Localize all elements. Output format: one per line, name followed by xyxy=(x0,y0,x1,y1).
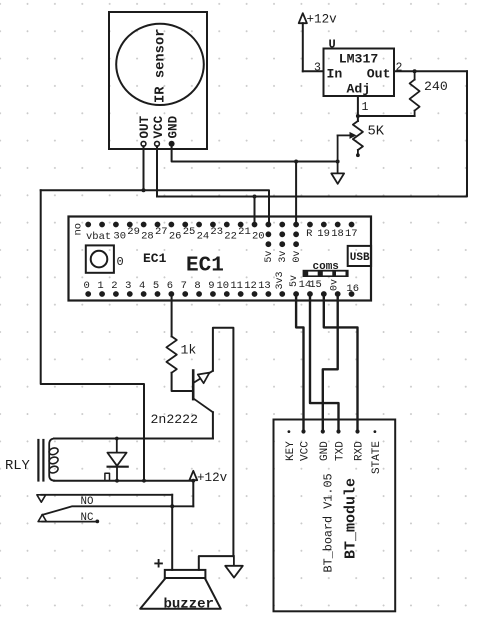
pin number 2 (Out) xyxy=(396,62,403,75)
EC1 board outline xyxy=(69,217,372,301)
potentiometer 5K xyxy=(353,121,363,157)
svg-text:1k: 1k xyxy=(181,343,197,358)
pin number 1 (Adj) xyxy=(362,101,369,114)
pin labels 0..13 (bottom) xyxy=(84,280,271,292)
pin label no xyxy=(73,223,85,236)
wire LM317 Out to right rail xyxy=(394,70,467,72)
EC1 big label xyxy=(186,255,224,278)
contact arrow NO xyxy=(37,495,46,502)
pin label R xyxy=(306,228,313,240)
relay RLY label xyxy=(5,459,31,474)
svg-text:EC1: EC1 xyxy=(143,251,167,266)
svg-text:4: 4 xyxy=(139,280,145,292)
coms label xyxy=(313,261,339,273)
ground (buzzer/emitter) xyxy=(225,556,243,578)
transistor Q1 2n2222 xyxy=(193,371,213,413)
EC1 small label xyxy=(143,251,167,266)
pin label 0v (bottom) xyxy=(330,279,341,291)
relay coil xyxy=(48,439,59,481)
svg-text:GND: GND xyxy=(319,441,331,461)
svg-text:10: 10 xyxy=(216,280,229,292)
svg-text:IR sensor: IR sensor xyxy=(154,28,169,103)
junction buzzer feed xyxy=(170,504,174,508)
svg-text:no: no xyxy=(73,223,85,236)
wire relay top rail xyxy=(54,438,213,440)
junction Adj node xyxy=(356,114,360,118)
svg-text:9: 9 xyxy=(208,280,214,292)
svg-text:16: 16 xyxy=(346,283,359,295)
junction diode top xyxy=(115,437,119,441)
wire VCC net to LM317 Out xyxy=(157,71,467,196)
svg-text:GND: GND xyxy=(166,115,180,138)
svg-text:5K: 5K xyxy=(368,125,385,140)
svg-text:1: 1 xyxy=(362,101,369,114)
buzzer body xyxy=(140,570,221,609)
regulator U LM317 xyxy=(324,38,395,97)
svg-text:VCC: VCC xyxy=(300,441,312,461)
svg-text:0: 0 xyxy=(84,280,90,292)
svg-text:0v: 0v xyxy=(292,251,303,263)
wire +12v to LM317 In xyxy=(303,70,324,72)
wire EC1 14 to BT TXD xyxy=(310,294,339,432)
IR sensor pin OUT xyxy=(138,115,152,146)
wire buzzer negative xyxy=(199,556,234,570)
svg-text:29: 29 xyxy=(127,226,140,238)
svg-text:STATE: STATE xyxy=(371,441,383,474)
diode D1 flyback xyxy=(107,439,127,481)
svg-text:RLY: RLY xyxy=(5,459,31,474)
potentiometer wiper arrow xyxy=(338,132,357,174)
coms connector xyxy=(303,270,349,277)
IR sensor pin VCC xyxy=(152,115,166,146)
svg-text:KEY: KEY xyxy=(285,441,297,461)
wire OUT net left loop down to relay rail xyxy=(41,190,144,480)
svg-text:17: 17 xyxy=(345,228,358,240)
junction diode bottom xyxy=(115,479,119,483)
svg-text:U: U xyxy=(329,38,336,52)
svg-text:6: 6 xyxy=(167,280,173,292)
svg-text:12: 12 xyxy=(244,280,257,292)
contact arrow NC xyxy=(38,515,46,522)
svg-text:EC1: EC1 xyxy=(186,255,224,278)
svg-text:3v: 3v xyxy=(278,251,289,263)
svg-text:Adj: Adj xyxy=(347,82,371,97)
pin label 16 xyxy=(346,283,359,295)
svg-text:TXD: TXD xyxy=(335,441,347,461)
switch lever xyxy=(42,506,193,515)
value label 5K xyxy=(368,125,385,140)
value label 1k xyxy=(181,343,197,358)
svg-text:2: 2 xyxy=(396,62,403,75)
ground (pot wiper) xyxy=(331,173,344,183)
svg-text:18: 18 xyxy=(331,228,344,240)
svg-text:3: 3 xyxy=(125,280,131,292)
svg-text:15: 15 xyxy=(309,279,322,291)
svg-text:Out: Out xyxy=(367,67,391,82)
wire NO line xyxy=(41,494,172,496)
svg-text:RXD: RXD xyxy=(354,441,366,461)
wire EC1 15 to BT RXD xyxy=(324,294,358,432)
pin label vbat xyxy=(86,231,111,243)
wire Adj down xyxy=(357,96,359,121)
wire EC1 0v to BT GND xyxy=(323,294,338,432)
USB connector xyxy=(348,246,371,266)
svg-text:24: 24 xyxy=(197,231,210,243)
junction +12v rail xyxy=(191,479,195,483)
EC1 top pin header row xyxy=(85,222,354,228)
svg-text:LM317: LM317 xyxy=(339,52,379,67)
svg-text:NC: NC xyxy=(81,512,94,524)
EC1 power pin block 5v/3v/0v xyxy=(265,231,299,247)
svg-text:28: 28 xyxy=(141,231,154,243)
value label 240 xyxy=(424,79,448,94)
BT pin GND xyxy=(319,429,331,461)
svg-text:26: 26 xyxy=(169,231,182,243)
svg-text:23: 23 xyxy=(210,226,223,238)
resistor 240 xyxy=(410,71,420,116)
svg-text:7: 7 xyxy=(181,280,187,292)
relay core bars xyxy=(38,440,43,481)
power +12v supply (top) xyxy=(299,13,337,72)
svg-text:30: 30 xyxy=(113,231,126,243)
svg-text:vbat: vbat xyxy=(86,231,111,243)
svg-text:27: 27 xyxy=(155,226,168,238)
BT pin RXD xyxy=(354,429,366,461)
svg-text:25: 25 xyxy=(183,226,196,238)
svg-text:20: 20 xyxy=(252,231,265,243)
svg-text:19: 19 xyxy=(317,228,330,240)
button label 0 xyxy=(117,255,124,269)
pin number 3 (In) xyxy=(314,62,321,75)
svg-text:2n2222: 2n2222 xyxy=(151,412,198,427)
svg-text:+12v: +12v xyxy=(307,13,338,27)
junction GND/0v xyxy=(294,160,340,164)
wire relay bottom rail (+12v) xyxy=(54,480,193,482)
svg-text:8: 8 xyxy=(194,280,200,292)
wire collector to relay xyxy=(212,412,214,438)
wire VCC vertical drop xyxy=(156,146,158,196)
svg-text:VCC: VCC xyxy=(152,115,166,138)
svg-text:11: 11 xyxy=(230,280,243,292)
wire Adj to 240 bottom xyxy=(358,115,415,117)
label NC xyxy=(81,512,94,524)
svg-text:3v3: 3v3 xyxy=(275,271,286,289)
svg-text:+: + xyxy=(154,556,164,575)
junction OUT node xyxy=(142,188,146,192)
BT pin KEY xyxy=(285,430,297,461)
diode cathode mark xyxy=(105,473,110,480)
wire GND net to EC1 0v pin and pot ground xyxy=(172,146,338,224)
wire +12v stem xyxy=(192,480,194,506)
junction 240 top xyxy=(413,69,417,73)
svg-text:0: 0 xyxy=(117,255,124,269)
BT_module label xyxy=(342,478,359,559)
wire emitter to ground rail xyxy=(213,328,234,556)
pin labels 5v 3v 0v (top block) xyxy=(264,251,303,263)
wire NO to buzzer xyxy=(171,495,173,570)
BT pin STATE xyxy=(371,430,383,474)
wire EC1 5v to BT VCC xyxy=(296,294,303,432)
junction rail / left loop xyxy=(142,479,146,483)
label NO xyxy=(81,496,94,508)
svg-text:OUT: OUT xyxy=(138,115,152,138)
wire EC1 pin6 down xyxy=(171,294,173,336)
IR sensor module body xyxy=(109,12,207,149)
label 2n2222 xyxy=(151,412,198,427)
svg-text:USB: USB xyxy=(350,252,370,264)
pin labels 14 15 xyxy=(299,279,322,291)
IR sensor label xyxy=(154,28,169,103)
buzzer label xyxy=(164,597,214,613)
svg-text:BT_board V1.05: BT_board V1.05 xyxy=(322,473,336,572)
svg-text:+12v: +12v xyxy=(197,471,228,485)
BT_board V1.05 label xyxy=(322,473,336,572)
button 0 (reset) xyxy=(86,245,114,272)
svg-text:buzzer: buzzer xyxy=(164,597,214,613)
resistor R 1k xyxy=(166,336,176,372)
svg-text:21: 21 xyxy=(238,226,251,238)
svg-text:0v: 0v xyxy=(330,279,341,291)
svg-text:1: 1 xyxy=(97,280,103,292)
svg-text:2: 2 xyxy=(111,280,117,292)
pin labels 30..20 xyxy=(113,226,264,243)
pin label 3v3 (bottom) xyxy=(275,271,286,289)
IR sensor pin GND xyxy=(166,115,180,146)
svg-text:R: R xyxy=(306,228,313,240)
pin labels 19 18 17 xyxy=(317,228,357,240)
svg-text:In: In xyxy=(327,67,343,82)
BT module body xyxy=(274,420,396,612)
wire OUT vertical drop xyxy=(143,146,145,190)
power +12v supply (relay) xyxy=(189,471,227,485)
wire VCC drop to EC1 pin xyxy=(254,197,256,225)
BT pin VCC xyxy=(300,429,312,461)
svg-text:BT_module: BT_module xyxy=(342,478,359,559)
buzzer polarity + xyxy=(154,556,164,575)
wire 1k to base xyxy=(172,373,194,391)
svg-text:5: 5 xyxy=(153,280,159,292)
EC1 bottom pin header row xyxy=(85,291,354,297)
pin label 5v (bottom) xyxy=(289,275,300,287)
svg-text:5v: 5v xyxy=(264,251,275,263)
junction VCC node xyxy=(253,195,257,199)
wire NC line xyxy=(42,520,99,524)
svg-text:13: 13 xyxy=(258,280,271,292)
BT pin TXD xyxy=(335,429,347,461)
svg-text:22: 22 xyxy=(224,231,237,243)
svg-text:240: 240 xyxy=(424,79,448,94)
wire OUT net horizontal to EC1 pin 20 xyxy=(41,190,269,224)
svg-text:3: 3 xyxy=(314,62,321,75)
